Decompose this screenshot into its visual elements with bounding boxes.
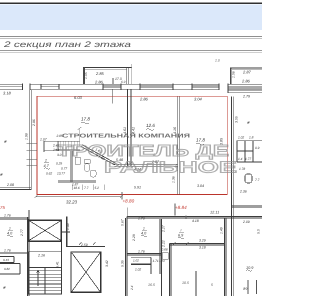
svg-text:5.41: 5.41	[56, 261, 60, 268]
svg-text:2.77: 2.77	[20, 229, 24, 237]
svg-text:0.29: 0.29	[56, 162, 62, 166]
left outside icons	[0, 139, 14, 187]
svg-text:13.77: 13.77	[57, 172, 65, 176]
svg-text:₴9: ₴9	[243, 287, 247, 291]
svg-text:СТРОИТЕЛЬНАЯ КОМПАНИЯ: СТРОИТЕЛЬНАЯ КОМПАНИЯ	[62, 133, 190, 139]
svg-text:+8.84: +8.84	[175, 205, 187, 210]
svg-text:4.0: 4.0	[141, 232, 147, 236]
svg-text:₴: ₴	[247, 120, 250, 125]
svg-text:2.87: 2.87	[242, 69, 252, 74]
svg-text:1.78: 1.78	[239, 167, 245, 171]
svg-text:2: 2	[142, 227, 145, 231]
svg-text:17.8: 17.8	[81, 117, 90, 122]
svg-text:12.6: 12.6	[146, 123, 155, 128]
svg-text:6.9: 6.9	[121, 80, 126, 84]
svg-text:1.76: 1.76	[4, 249, 11, 253]
svg-text:3.04: 3.04	[197, 184, 204, 188]
svg-text:0.67: 0.67	[121, 219, 125, 226]
svg-text:16.5: 16.5	[148, 283, 155, 287]
svg-text:2.36: 2.36	[239, 190, 247, 194]
svg-text:2.86: 2.86	[32, 119, 36, 127]
svg-text:1.02: 1.02	[238, 136, 244, 140]
red apartment outline	[37, 96, 227, 194]
svg-text:7.7: 7.7	[84, 186, 89, 190]
svg-text:1.76: 1.76	[138, 250, 145, 254]
svg-text:0.77: 0.77	[61, 167, 67, 171]
balcony left	[83, 64, 132, 104]
svg-text:2.28: 2.28	[132, 234, 136, 242]
header double rule	[0, 35, 262, 38]
elevator shaft 2 with X	[71, 252, 101, 292]
svg-text:1.06: 1.06	[232, 71, 236, 78]
svg-text:2.86: 2.86	[241, 78, 251, 83]
interior wall rooms A/B	[81, 90, 180, 195]
svg-text:5.0: 5.0	[256, 229, 260, 234]
svg-text:6.03: 6.03	[74, 95, 83, 100]
svg-text:0.9: 0.9	[255, 146, 260, 150]
watermark	[57, 133, 238, 176]
svg-text:5.91: 5.91	[134, 186, 141, 190]
window mid lines	[0, 86, 262, 92]
svg-text:1.07: 1.07	[40, 138, 47, 142]
svg-text:2.09: 2.09	[242, 220, 250, 224]
svg-text:3.04: 3.04	[194, 97, 203, 102]
svg-text:₴: ₴	[0, 172, 3, 177]
diagonal wall	[81, 145, 116, 165]
svg-text:2.08: 2.08	[6, 183, 14, 187]
svg-text:ТРОИТЕЛЬ ДЕ: ТРОИТЕЛЬ ДЕ	[57, 143, 229, 160]
horizontal wall bottom of room B	[115, 164, 178, 166]
svg-text:6.9: 6.9	[178, 234, 184, 238]
header black top line	[0, 3, 262, 5]
lower apartment outer walls	[125, 208, 262, 296]
top outer wall lower line	[0, 88, 262, 90]
svg-text:2 секция план 2 этажа: 2 секция план 2 этажа	[3, 40, 132, 49]
svg-text:4.18: 4.18	[192, 219, 199, 223]
svg-text:1.0: 1.0	[215, 59, 220, 63]
svg-text:1.98: 1.98	[25, 133, 29, 140]
svg-text:1.4: 1.4	[238, 157, 243, 161]
svg-text:2.85: 2.85	[95, 71, 105, 76]
svg-text:0.66: 0.66	[162, 248, 168, 252]
dim marks row bottom of red box	[72, 185, 104, 191]
svg-text:4.0: 4.0	[7, 232, 13, 236]
svg-text:2: 2	[44, 159, 47, 163]
svg-text:1.71: 1.71	[153, 259, 159, 263]
svg-text:3.18: 3.18	[3, 90, 12, 95]
wall ticks	[23, 84, 229, 93]
svg-text:0.82: 0.82	[4, 267, 10, 271]
dimension line 32.23	[35, 192, 124, 200]
svg-text:2.86: 2.86	[94, 79, 104, 84]
svg-text:₴: ₴	[4, 139, 7, 144]
svg-text:10.9: 10.9	[246, 266, 254, 270]
svg-text:1.02: 1.02	[133, 259, 139, 263]
svg-text:1.77: 1.77	[245, 157, 251, 161]
svg-text:0.43: 0.43	[3, 258, 9, 262]
svg-text:17.8: 17.8	[196, 138, 205, 143]
svg-text:18.6: 18.6	[74, 186, 80, 190]
svg-text:+8.80: +8.80	[123, 199, 135, 204]
core walls	[67, 217, 105, 248]
left building wall	[0, 90, 37, 190]
lower apartment interior	[127, 218, 226, 296]
svg-text:1.02: 1.02	[135, 268, 141, 272]
hall/bath cluster	[44, 141, 96, 182]
svg-text:1.76: 1.76	[138, 217, 145, 221]
elevator shaft 1 with X	[29, 220, 70, 252]
svg-text:3.29: 3.29	[199, 238, 206, 242]
svg-text:1.05: 1.05	[84, 72, 88, 79]
svg-text:5.35: 5.35	[121, 260, 125, 267]
svg-text:2.4: 2.4	[130, 285, 134, 291]
svg-text:₴: ₴	[3, 285, 6, 290]
svg-text:12.11: 12.11	[210, 211, 219, 215]
lower-left rooms	[0, 210, 29, 296]
wall room B/C	[178, 96, 180, 194]
stairwell with stairs	[29, 252, 62, 294]
svg-text:1.76: 1.76	[4, 213, 11, 217]
svg-text:3.18: 3.18	[199, 246, 206, 250]
svg-text:2.79: 2.79	[242, 94, 250, 98]
top outer wall upper line	[0, 83, 262, 85]
svg-text:2.27: 2.27	[161, 225, 165, 233]
svg-text:1.8: 1.8	[249, 136, 254, 140]
svg-text:32.23: 32.23	[66, 200, 78, 205]
svg-text:РАЛЬНОЕ: РАЛЬНОЕ	[104, 160, 238, 177]
svg-text:75: 75	[0, 205, 5, 210]
svg-text:1.71: 1.71	[159, 259, 165, 263]
svg-text:2.59: 2.59	[80, 243, 88, 247]
header bottom rule	[0, 49, 262, 52]
svg-text:2: 2	[8, 227, 11, 231]
svg-text:1.49: 1.49	[219, 227, 223, 234]
right section upper rooms	[232, 96, 262, 296]
svg-text:2.16: 2.16	[37, 254, 45, 258]
balcony right	[230, 68, 262, 84]
svg-text:4.7: 4.7	[44, 164, 50, 168]
svg-text:1.36: 1.36	[172, 176, 176, 183]
svg-text:2.86: 2.86	[139, 97, 149, 102]
svg-text:3.42: 3.42	[105, 260, 109, 267]
svg-text:0.62: 0.62	[46, 172, 52, 176]
svg-text:10.5: 10.5	[182, 281, 189, 285]
header blue band	[0, 5, 262, 30]
svg-text:7.7: 7.7	[255, 178, 260, 182]
svg-text:5: 5	[211, 283, 213, 287]
svg-text:3.05: 3.05	[235, 116, 239, 123]
svg-text:5.2: 5.2	[95, 186, 100, 190]
